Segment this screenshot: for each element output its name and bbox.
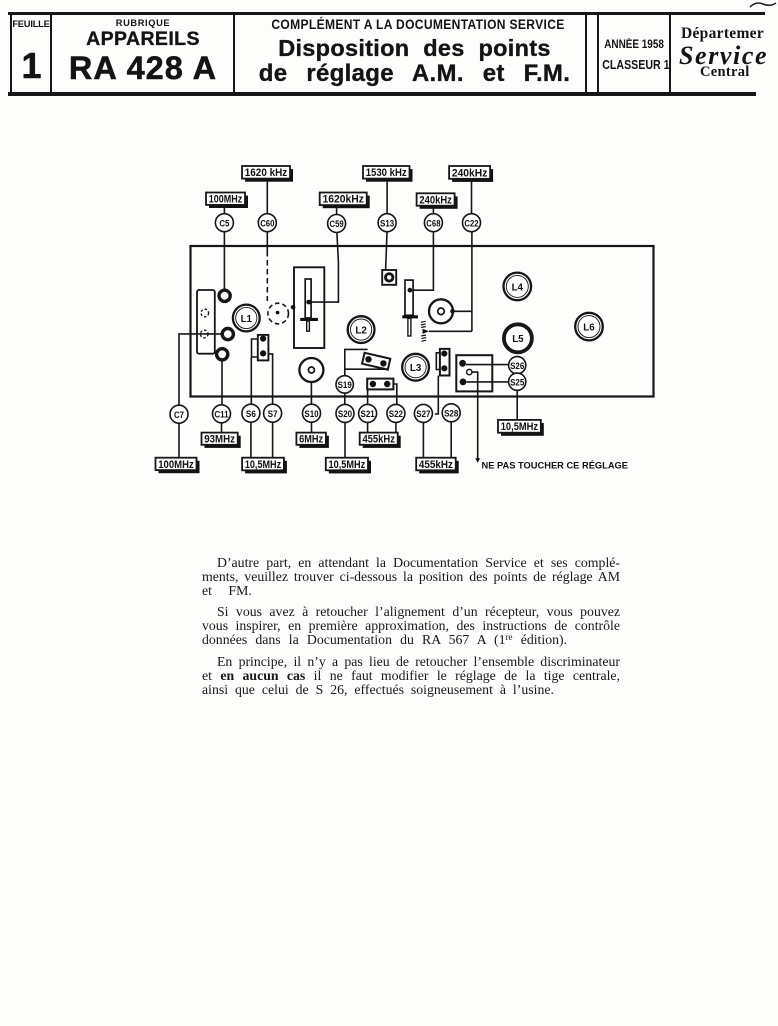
paragraph 3 xyxy=(202,655,620,669)
ring core top xyxy=(219,290,230,301)
coil core adjuster xyxy=(429,299,453,323)
trimmer C7 xyxy=(170,405,188,423)
wire S21 xyxy=(367,389,369,404)
svg-text:10,5MHz: 10,5MHz xyxy=(329,459,366,471)
screw hatch with arrow xyxy=(421,321,429,341)
core S25 xyxy=(509,373,526,390)
trimmer C5 xyxy=(215,214,233,232)
svg-text:240kHz: 240kHz xyxy=(452,167,488,179)
svg-text:C5: C5 xyxy=(219,217,229,228)
wire C11 label xyxy=(221,423,223,433)
IF slug with screw xyxy=(300,279,318,331)
wire label to S13 xyxy=(386,181,388,214)
core S21 xyxy=(359,404,377,422)
wire central screw down xyxy=(472,372,478,459)
coil L6 xyxy=(575,313,603,341)
wire C22 down xyxy=(471,232,473,331)
antenna plate xyxy=(197,290,215,354)
svg-text:C11: C11 xyxy=(214,408,228,419)
svg-text:S7: S7 xyxy=(268,408,278,419)
junction dot xyxy=(450,309,455,314)
svg-text:S20: S20 xyxy=(338,408,352,419)
core S27 xyxy=(414,404,432,422)
wire C68 to slug xyxy=(412,232,433,290)
svg-text:C60: C60 xyxy=(260,217,274,228)
wire S10 xyxy=(310,382,312,404)
bracket S27 S28 xyxy=(436,353,440,370)
svg-text:L5: L5 xyxy=(512,334,524,345)
padder S21 S22 xyxy=(367,379,393,390)
wire C59 to slug xyxy=(311,233,338,303)
svg-text:240kHz: 240kHz xyxy=(419,194,452,206)
svg-text:10,5MHz: 10,5MHz xyxy=(245,459,282,471)
pen squiggle top right xyxy=(748,0,778,12)
svg-text:L6: L6 xyxy=(583,323,595,334)
coil L1 xyxy=(233,305,260,332)
svg-text:93MHz: 93MHz xyxy=(204,434,235,446)
wire S13 down xyxy=(386,232,387,270)
padder block S6 S7 xyxy=(258,335,269,361)
trimmer C11 xyxy=(213,405,231,423)
svg-text:6MHz: 6MHz xyxy=(299,434,323,446)
wire S7 label xyxy=(272,422,274,458)
wire to S26 xyxy=(466,364,509,366)
wire S19 lower branch xyxy=(345,368,385,370)
ring core bottom xyxy=(217,349,228,360)
svg-text:C22: C22 xyxy=(464,217,478,228)
svg-text:S28: S28 xyxy=(444,407,458,418)
label 10,5MHz for S25 xyxy=(498,420,544,436)
svg-text:1620 kHz: 1620 kHz xyxy=(245,167,288,179)
svg-text:1530 kHz: 1530 kHz xyxy=(366,167,407,179)
label 93MHz for C11 xyxy=(202,433,241,448)
core S10 xyxy=(303,404,321,422)
svg-text:S21: S21 xyxy=(361,408,375,419)
wire C60 down xyxy=(266,232,268,251)
header sep rubrique/title xyxy=(233,14,236,92)
wire label to C59 xyxy=(336,208,338,215)
chassis outline xyxy=(191,246,654,397)
wire S22 label xyxy=(395,422,397,432)
wire S22 xyxy=(393,384,396,405)
wire tee to coil core xyxy=(445,310,472,312)
label 10,5MHz for S6 S7 xyxy=(242,458,287,474)
wire S19 S20 xyxy=(344,393,346,405)
label 240kHz for C68 xyxy=(417,193,458,208)
label 455kHz for S27 S28 xyxy=(416,458,459,474)
wire S25 down xyxy=(516,390,518,420)
label 10,5MHz for S20 xyxy=(326,458,371,474)
svg-text:L2: L2 xyxy=(355,326,367,337)
label 240kHz for C22 xyxy=(449,166,493,182)
header top rule xyxy=(8,12,765,15)
core S13 xyxy=(378,214,396,232)
wire to S25 xyxy=(467,381,509,383)
FM slug with screw xyxy=(402,280,418,336)
core S19 xyxy=(336,376,353,393)
terminal S26 xyxy=(459,360,466,367)
core S22 xyxy=(387,404,405,422)
header sep annee left xyxy=(597,14,600,92)
trimmer C68 xyxy=(424,214,442,232)
wire C7 xyxy=(179,334,221,405)
wire S27 S28 xyxy=(435,376,439,415)
label 1620kHz for C59 xyxy=(320,193,370,209)
coil L5 xyxy=(503,323,534,354)
svg-text:S10: S10 xyxy=(304,408,318,419)
label 1620kHz for C60 xyxy=(242,166,293,182)
wire C7 label xyxy=(178,423,180,458)
core S20 xyxy=(336,404,354,422)
svg-text:C68: C68 xyxy=(426,217,440,228)
padder S20 tilted xyxy=(362,353,390,370)
title line 1 Disposition des points xyxy=(241,35,589,62)
discriminator box xyxy=(456,355,492,391)
header bottom rule xyxy=(8,92,756,97)
core S26 xyxy=(509,357,526,374)
svg-text:C7: C7 xyxy=(174,409,184,420)
wire C60 dashed xyxy=(266,251,268,301)
wire S6 label xyxy=(250,422,252,458)
wire label to C5 xyxy=(223,207,225,213)
logo Service xyxy=(679,41,778,71)
header left border xyxy=(10,14,12,92)
svg-text:10,5MHz: 10,5MHz xyxy=(501,421,539,433)
label RUBRIQUE xyxy=(53,18,233,28)
bracket S6 S7 xyxy=(252,339,258,357)
trimmer C22 xyxy=(463,214,481,232)
wire S10 label xyxy=(311,422,313,432)
svg-text:100MHz: 100MHz xyxy=(158,459,194,471)
label CLASSEUR 1 xyxy=(602,58,662,72)
paragraph 2 xyxy=(202,605,620,619)
svg-text:L4: L4 xyxy=(512,282,524,293)
padder block S27 S28 xyxy=(440,349,450,376)
svg-text:S13: S13 xyxy=(380,217,394,228)
S13 socket xyxy=(382,270,396,285)
header sep feuille/rubrique xyxy=(50,14,52,92)
svg-text:S25: S25 xyxy=(510,376,524,387)
central screw xyxy=(467,369,472,374)
svg-text:1620kHz: 1620kHz xyxy=(322,194,364,206)
wire S27 label xyxy=(422,422,424,457)
core S6 xyxy=(242,404,260,422)
svg-text:S22: S22 xyxy=(389,408,403,419)
wire S7 xyxy=(268,354,272,405)
arrowhead central screw xyxy=(475,458,480,463)
terminal S25 xyxy=(460,379,467,386)
header sep annee/departement xyxy=(669,14,672,92)
svg-text:455kHz: 455kHz xyxy=(362,434,395,446)
label APPAREILS xyxy=(53,28,233,51)
wire label to C22 xyxy=(471,181,473,214)
label Central xyxy=(700,64,778,81)
wire C5 down xyxy=(223,232,225,290)
wire S28 label xyxy=(450,422,452,458)
coil L2 xyxy=(348,316,375,343)
wire S20 label xyxy=(344,422,346,457)
wire label to C68 xyxy=(432,208,434,214)
label 100MHz for C5 xyxy=(206,193,248,209)
label 6MHz for S10 xyxy=(296,433,329,448)
paragraph 1 xyxy=(202,556,620,570)
core S28 xyxy=(442,404,460,422)
label 455kHz for S21 S22 xyxy=(360,433,401,448)
label RA 428 A xyxy=(53,50,233,87)
dashed coil position C60 xyxy=(268,303,289,324)
svg-text:C59: C59 xyxy=(330,218,344,229)
svg-text:L3: L3 xyxy=(410,363,422,374)
label COMPLEMENT A LA DOCUMENTATION SERVICE xyxy=(270,17,566,33)
wire S21 label xyxy=(367,422,369,432)
wire C22 to screw xyxy=(429,330,472,332)
node dot xyxy=(291,305,296,310)
svg-text:100MHz: 100MHz xyxy=(209,194,243,206)
wire S19 up xyxy=(345,349,368,376)
ring core middle xyxy=(222,329,233,340)
coil L4 xyxy=(504,273,532,301)
svg-text:S6: S6 xyxy=(246,408,256,419)
coil S10 xyxy=(299,358,323,382)
label 100MHz for C7 xyxy=(156,458,200,473)
label ANNEE 1958 xyxy=(604,38,664,51)
wire label to C60 xyxy=(266,181,268,214)
svg-text:S26: S26 xyxy=(510,360,524,371)
svg-text:S19: S19 xyxy=(338,379,352,390)
label Departement xyxy=(681,25,778,43)
wire S6 xyxy=(250,357,252,404)
trimmer C60 xyxy=(258,214,276,232)
core S7 xyxy=(264,404,282,422)
svg-text:455kHz: 455kHz xyxy=(419,459,453,471)
coil L3 xyxy=(402,354,429,381)
wire C11 xyxy=(221,361,223,405)
svg-text:S27: S27 xyxy=(416,408,430,419)
header title box right border xyxy=(585,14,588,92)
trimmer C59 xyxy=(328,215,346,233)
IF transformer box xyxy=(294,267,324,348)
label 1530kHz for S13 xyxy=(363,166,413,182)
big sheet number 1 xyxy=(12,45,51,87)
label FEUILLE xyxy=(11,19,51,29)
svg-text:NE PAS TOUCHER CE RÉGLAGE: NE PAS TOUCHER CE RÉGLAGE xyxy=(482,459,629,470)
svg-text:L1: L1 xyxy=(241,314,253,325)
title line 2 de reglage A.M. et F.M. xyxy=(241,60,589,88)
